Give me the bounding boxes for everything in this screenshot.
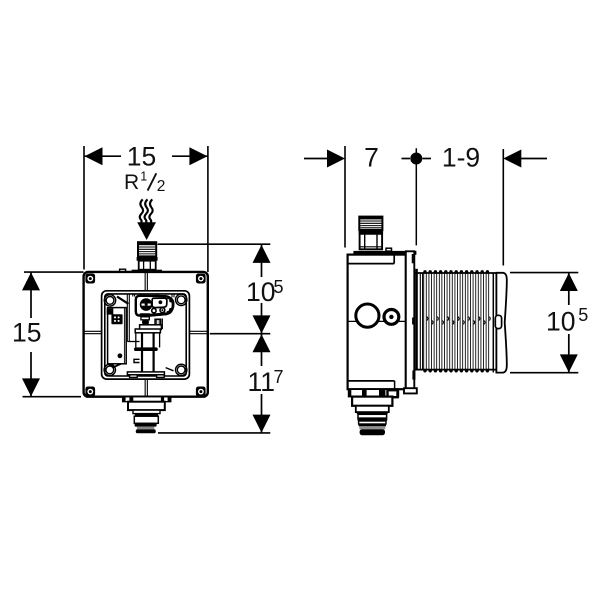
side view: bottom fitting — [348, 389, 399, 398]
wall reference dot — [410, 153, 422, 165]
bottom fitting front: narrow block — [133, 410, 160, 414]
inner frame — [102, 291, 190, 379]
bottom fitting front: upper white block — [128, 402, 165, 410]
bellows: end section — [492, 273, 494, 373]
side view: bottom step lines — [348, 380, 394, 382]
svg-text:R: R — [124, 171, 139, 194]
inner corner rings — [104, 294, 187, 376]
bellows: ribs — [425, 272, 490, 371]
side view: seam line — [348, 320, 405, 322]
small tab on box top — [120, 269, 126, 272]
dimension 15 left: line segments — [30, 272, 32, 318]
svg-text:1-9: 1-9 — [442, 142, 480, 172]
dimension 10^5 side: extension lines — [510, 272, 578, 274]
side view: small bump on top — [386, 248, 392, 251]
bottom fitting front: dark band 1 — [135, 414, 158, 417]
plate bump square — [107, 308, 114, 314]
side view: flange plate — [406, 251, 415, 392]
corner screw pads — [85, 274, 205, 397]
dimension 15 left: extension lines — [24, 271, 84, 273]
dimension 7 / 1-9: left arrow — [304, 158, 328, 160]
dimension 7 / 1-9: right arrow — [521, 158, 547, 160]
svg-text:15: 15 — [12, 318, 41, 348]
side view: flange foot — [404, 388, 417, 393]
water inflow wavy lines — [140, 199, 143, 222]
side view: top fitting — [359, 217, 382, 230]
valve small circles — [152, 308, 156, 312]
dimension 15 top: extension line right — [207, 146, 209, 272]
dimension 15 left: arrows — [22, 272, 40, 290]
seal capsule — [134, 347, 158, 351]
svg-text:10: 10 — [546, 306, 575, 336]
plate dot — [118, 353, 123, 358]
valve stepped bands — [140, 313, 151, 317]
dimension 15 top: extension line left — [83, 146, 85, 270]
outer box front view — [84, 272, 208, 397]
bottom fitting front: grey stripe — [137, 427, 154, 430]
top fitting front: neck — [139, 261, 156, 270]
bottom fitting front: dark band 2 — [135, 423, 157, 426]
top fitting front: threaded cap — [138, 242, 156, 257]
dimension 11^7 front: line + arrows — [261, 334, 263, 366]
dimension 15 top: arrow right — [189, 147, 207, 165]
pipe chamber — [135, 329, 160, 333]
side view: lid lines — [348, 263, 394, 265]
bellows: attachment — [415, 269, 418, 371]
bottom fitting front: white band — [134, 416, 158, 423]
right dimensions of front view: extension lines — [158, 243, 271, 245]
support bracket lines — [126, 294, 128, 342]
dimension 15 top: arrow left — [85, 147, 103, 165]
top fitting front: collar — [137, 257, 158, 261]
bellows: clip — [495, 315, 501, 328]
svg-text:7: 7 — [274, 367, 284, 387]
valve panel — [152, 298, 167, 308]
svg-text:7: 7 — [364, 142, 379, 172]
bellows: web edges — [414, 272, 497, 274]
hook left of pipe — [134, 359, 140, 362]
valve right cap — [167, 298, 173, 313]
side view: small circle with dot — [384, 310, 399, 325]
pipe bottom bracket — [127, 372, 164, 375]
bellows: end cap — [496, 273, 506, 373]
diagonal detail lines — [117, 297, 128, 304]
dimension 10^5 side: line + arrows — [568, 273, 570, 305]
dimension 10^5 front: line + arrows — [261, 245, 263, 277]
side view: top flange bar — [353, 251, 416, 255]
valve latch — [155, 319, 161, 329]
svg-text:10: 10 — [246, 277, 275, 307]
side view: box body — [348, 255, 406, 390]
svg-text:11: 11 — [248, 367, 276, 397]
svg-text:5: 5 — [274, 277, 284, 297]
svg-text:1: 1 — [140, 169, 147, 183]
valve screw — [140, 299, 151, 310]
dimension 7 / 1-9: extension lines — [344, 146, 346, 248]
left plate — [108, 308, 127, 364]
svg-text:2: 2 — [157, 178, 166, 195]
box seam lines — [84, 272, 208, 396]
svg-text:15: 15 — [127, 142, 156, 172]
valve lower housing — [140, 325, 162, 330]
bellows lower attachment tab — [412, 370, 415, 379]
svg-text:5: 5 — [578, 305, 588, 325]
valve body — [136, 296, 173, 316]
bottom fitting front: bracket row — [123, 397, 171, 402]
plate connector block with pins — [111, 314, 122, 324]
top fitting front: flange — [132, 270, 162, 273]
dimension 15 top: line segments — [85, 155, 122, 157]
inflow arrow — [137, 222, 156, 240]
bottom fitting front: outlet dark block — [136, 429, 156, 433]
side view: big circle — [356, 304, 379, 327]
